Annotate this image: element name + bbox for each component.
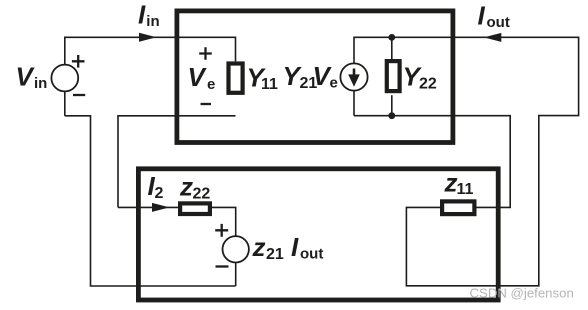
Vin minus sign [73, 94, 85, 96]
z21 plus sign [215, 224, 228, 237]
z21 minus sign [216, 265, 229, 267]
svg-text:I: I [478, 1, 486, 31]
resistor Y22 [387, 61, 400, 91]
svg-text:e: e [207, 76, 215, 93]
arrowhead Iout [484, 33, 502, 42]
wire: Iin wire into top box to Y11 top [64, 37, 236, 61]
wire: current source top lead, top rail, Iout outer loop down to z11 left [354, 37, 579, 285]
wire: I2 wire entering bottom box [118, 206, 178, 208]
svg-text:21: 21 [266, 246, 284, 263]
junction dot top node [388, 34, 395, 41]
svg-text:22: 22 [419, 75, 437, 92]
wire: z21 source bottom lead [235, 262, 237, 287]
svg-text:in: in [146, 13, 159, 30]
arrowhead Iin [139, 33, 157, 42]
svg-text:z: z [179, 172, 193, 202]
wire: z21 source top lead to z22 right end [212, 207, 236, 237]
wire: top box left port bottom rail exit down to I2 [118, 116, 236, 208]
junction dot bottom node [388, 112, 395, 119]
svg-text:out: out [300, 246, 323, 263]
svg-text:CSDN @jefenson: CSDN @jefenson [470, 286, 574, 301]
svg-text:V: V [188, 62, 208, 92]
svg-text:e: e [330, 75, 338, 92]
wire: Vin top lead [64, 37, 66, 65]
arrowhead I2 [152, 203, 170, 212]
wire: Vin bottom lead [64, 91, 66, 116]
svg-text:I: I [291, 232, 299, 262]
svg-text:in: in [34, 75, 47, 92]
wire: bottom rail of Y section out to z11 right [354, 116, 510, 208]
Ve plus sign [199, 47, 212, 60]
Vin plus sign [72, 55, 85, 68]
svg-text:out: out [487, 14, 510, 31]
current source Y21*Ve circle [340, 63, 367, 90]
svg-text:I: I [138, 0, 146, 30]
svg-text:22: 22 [193, 185, 211, 202]
wire: Y22 bottom lead [391, 95, 393, 116]
resistor z22 [180, 203, 210, 214]
svg-text:11: 11 [457, 181, 474, 198]
svg-text:11: 11 [261, 76, 278, 93]
top box: Y-parameter two-port network [177, 11, 453, 143]
resistor z11 [442, 201, 474, 214]
wire: Y22 top lead [391, 37, 393, 59]
current source arrow [353, 69, 356, 78]
wire: Vin- down to bottom rail to z21 source bottom [65, 116, 236, 286]
resistor Y11 [229, 64, 243, 93]
svg-text:V: V [16, 62, 36, 92]
voltage source Vin [51, 65, 78, 92]
bottom box: z-parameter feedback network [138, 169, 498, 300]
svg-text:z: z [252, 232, 266, 262]
svg-text:z: z [444, 167, 458, 197]
wire: current source bottom lead [353, 91, 355, 116]
Ve minus sign [201, 103, 212, 105]
voltage source z21*Iout [223, 236, 249, 262]
svg-text:2: 2 [155, 185, 164, 202]
